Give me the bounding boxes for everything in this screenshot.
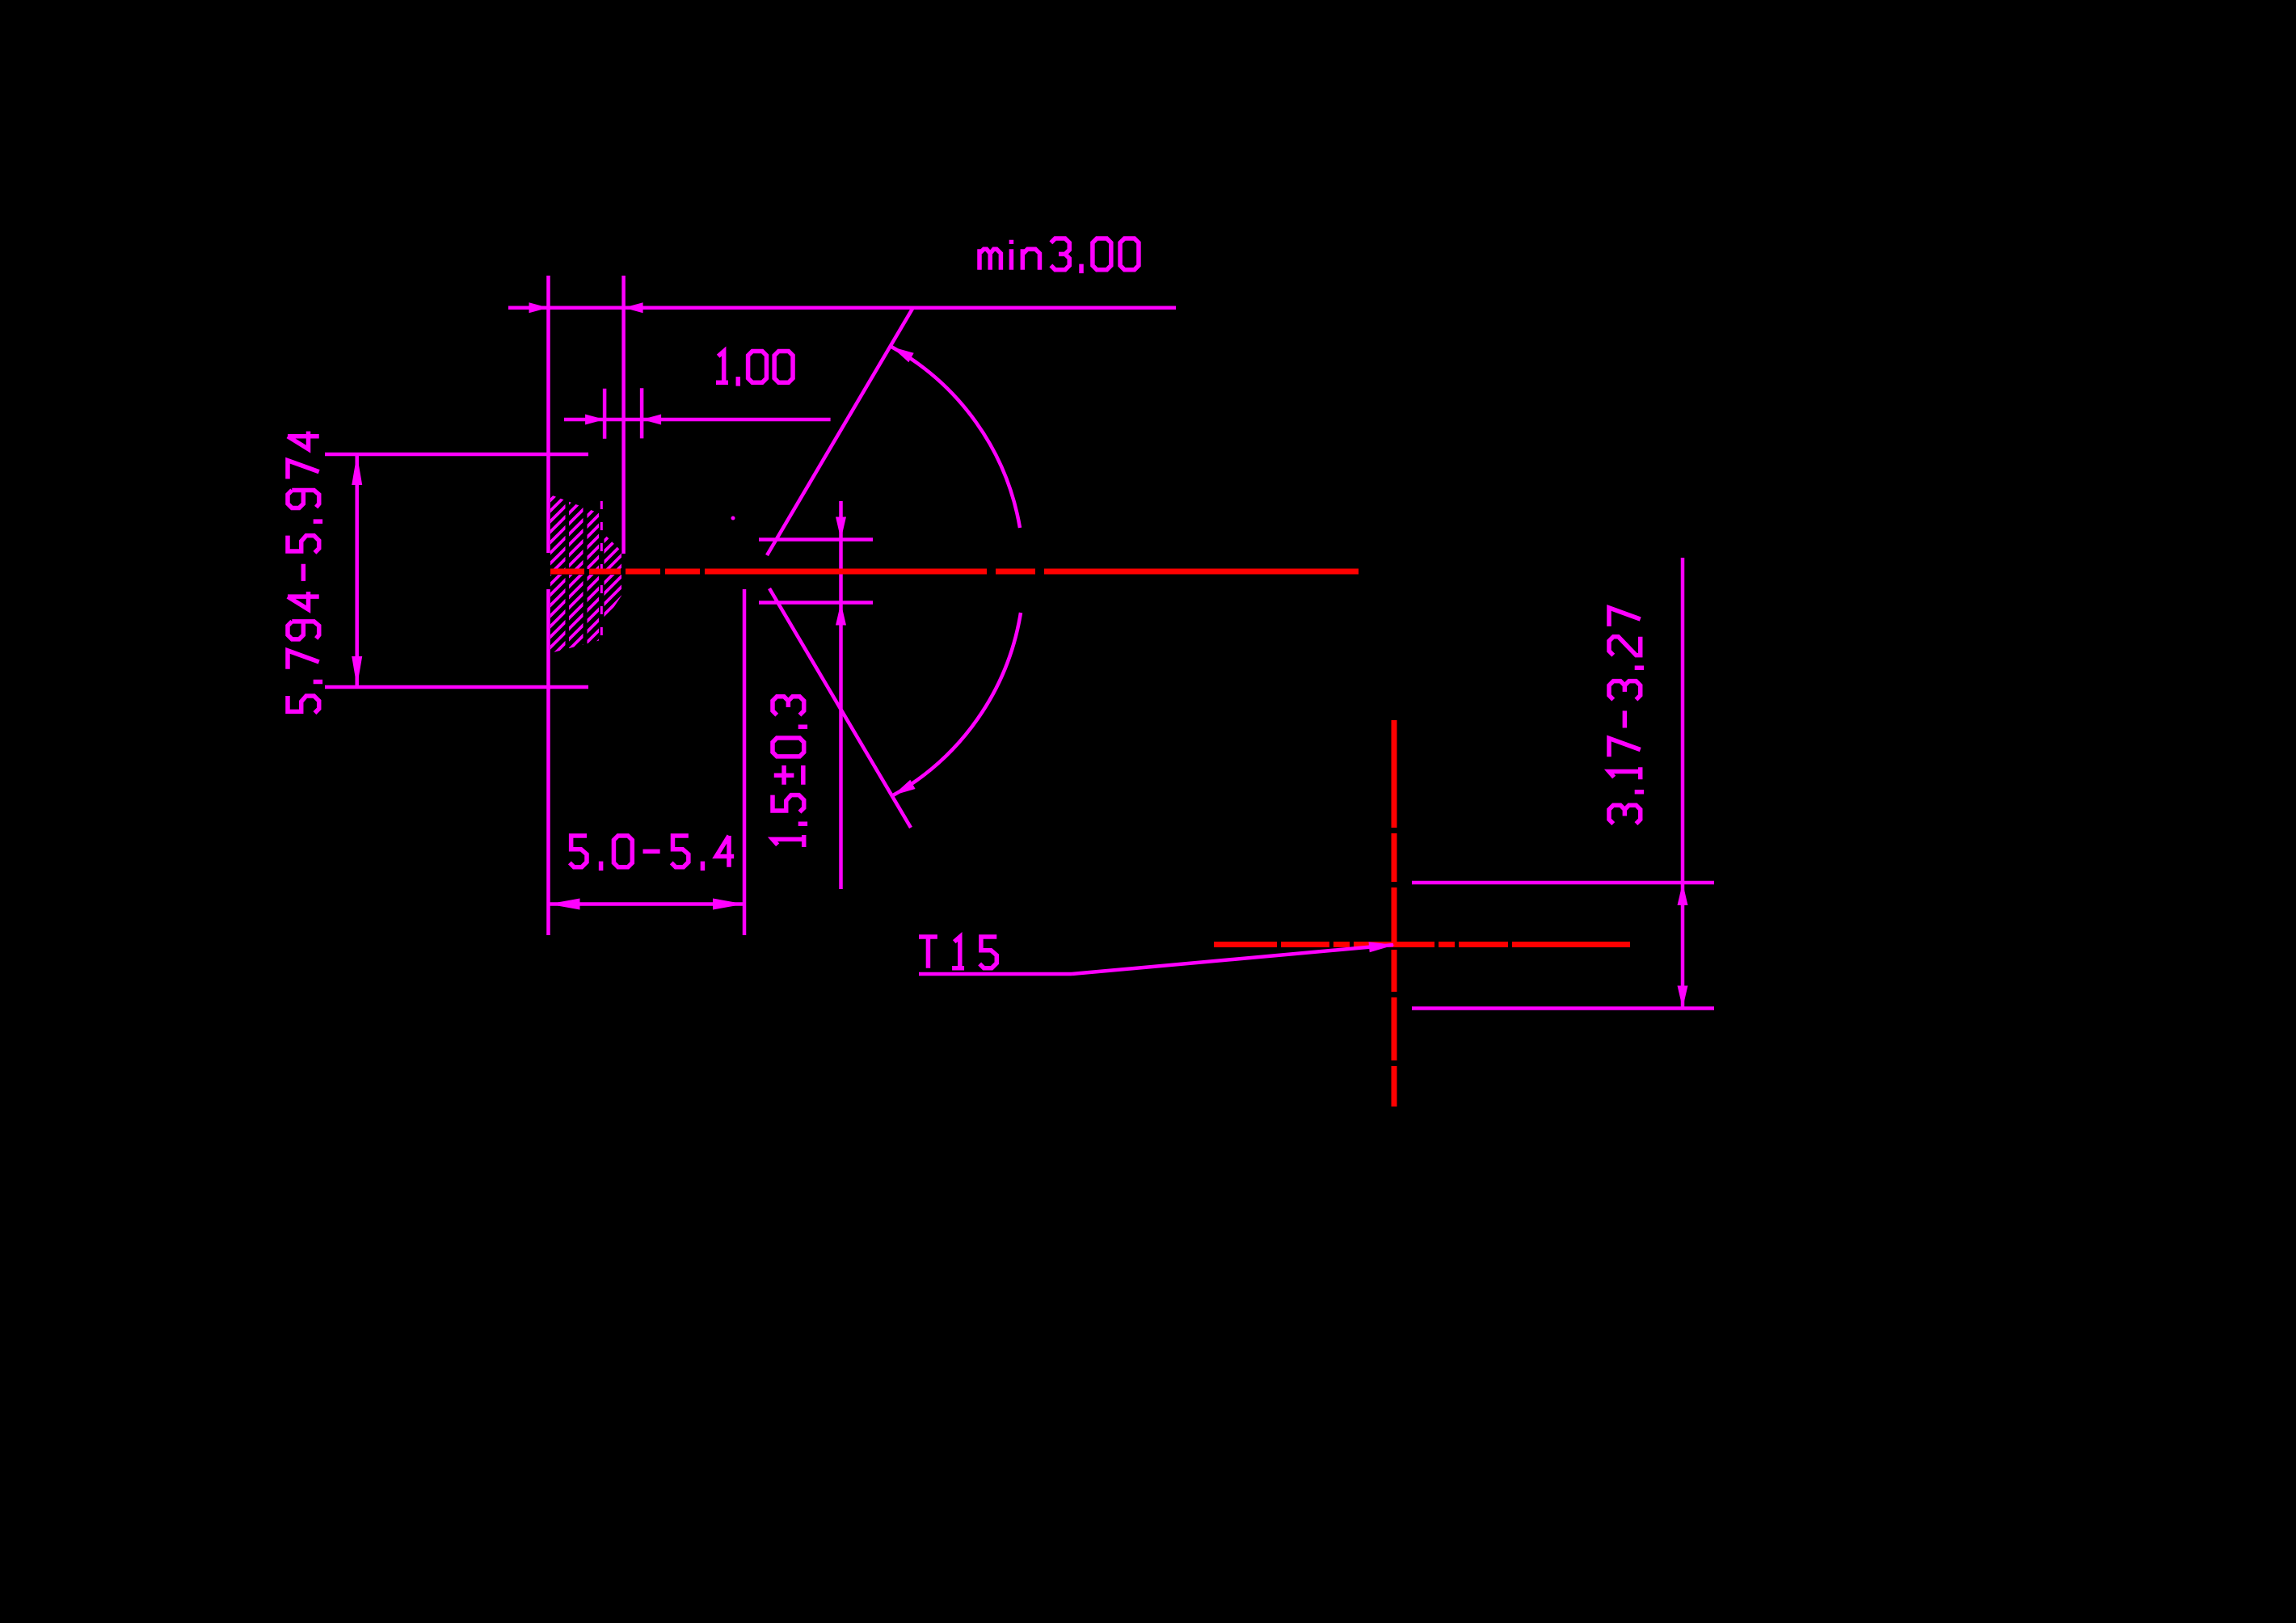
drill point chamfer line lower xyxy=(769,588,911,828)
angle dimension arc lower xyxy=(893,613,1021,795)
thread boundary gap (black) xyxy=(599,498,605,650)
stray point mark xyxy=(731,516,735,521)
thread groove gap 1 (black) xyxy=(566,491,570,656)
main axis centerline (red, horizontal) xyxy=(550,569,584,575)
part outline left vertical (lower segment / extension to 5.0-5.4 dim) xyxy=(546,589,550,935)
text 5.0-5.4 xyxy=(570,836,734,871)
arrow bore diameter up xyxy=(352,454,362,485)
extension line top of bore diameter dim xyxy=(325,453,588,457)
arrow torx depth down xyxy=(1678,986,1688,1009)
angle dimension arc upper xyxy=(891,347,1020,528)
arrow 1.5 up (tip at lower tick) xyxy=(836,603,846,626)
arrow 1.00 right xyxy=(642,415,661,425)
arrow on upper arc (points to upper chamfer line) xyxy=(891,347,914,362)
thread groove gap 2 (black) xyxy=(583,491,588,656)
arrow on lower arc (points to lower chamfer line) xyxy=(893,780,916,795)
drill point chamfer line upper xyxy=(767,309,912,555)
dimension line min3.00 xyxy=(508,306,1176,310)
extension tick lower of 1.5 dim xyxy=(759,601,873,605)
dimension line torx depth (vertical) xyxy=(1681,558,1685,1009)
T15 leader arrow (tip at torx centre) xyxy=(1369,942,1396,952)
arrow min3.00 right (tip at second vertical) xyxy=(624,302,643,313)
text 1.5±0.3 (rotated) xyxy=(773,697,807,847)
part outline second vertical (1mm offset plane) xyxy=(621,276,626,554)
torx cross centerline horizontal (red) xyxy=(1214,942,1277,947)
text 5.794-5.974 (rotated) xyxy=(288,432,322,713)
text 1.00 xyxy=(716,352,793,386)
extension tick upper of 1.5 dim xyxy=(759,537,873,542)
extension tick left of 1.00 dim xyxy=(603,389,607,439)
section hatch upper region xyxy=(550,495,621,569)
arrow 5.0-5.4 right xyxy=(713,899,744,910)
extension tick right of 1.00 dim xyxy=(640,388,644,438)
dimension line bore diameter (vertical) xyxy=(355,454,359,687)
dimension line 1.5 (vertical) xyxy=(839,501,843,889)
part outline left vertical (upper segment) xyxy=(546,276,550,553)
extension line lower of torx depth dim xyxy=(1412,1006,1714,1010)
text T15 xyxy=(919,937,996,968)
arrow 1.5 down (tip at upper tick) xyxy=(836,517,846,540)
arrow min3.00 left (tip at left outline) xyxy=(529,302,549,313)
arrow torx depth up xyxy=(1678,883,1688,905)
text min3.00 xyxy=(979,238,1139,273)
torx cross centerline vertical (red) xyxy=(1392,720,1397,828)
dimension line 1.00 xyxy=(564,418,831,422)
arrow bore diameter down xyxy=(352,656,362,687)
arrow 5.0-5.4 left xyxy=(549,899,580,910)
T15 underline xyxy=(919,972,1072,976)
arrow 1.00 left xyxy=(585,415,605,425)
dimension line 5.0-5.4 xyxy=(549,902,745,906)
T15 leader line xyxy=(1072,945,1393,974)
thread pitch dashed line xyxy=(600,501,603,648)
text 3.17-3.27 (rotated) xyxy=(1609,608,1644,824)
extension line right of 5.0-5.4 dim xyxy=(743,589,747,935)
extension line upper of torx depth dim xyxy=(1412,881,1714,885)
section hatch lower region xyxy=(550,575,621,653)
extension line bottom of bore diameter dim xyxy=(325,685,588,689)
